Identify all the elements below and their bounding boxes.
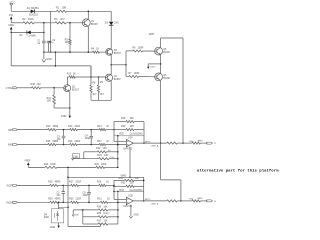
resistor R9 vertical x=98.4 xyxy=(97,77,99,85)
transistor Q6 PNP xyxy=(155,73,163,81)
svg-text:10K: 10K xyxy=(130,125,135,128)
svg-text:R36: R36 xyxy=(97,212,102,215)
svg-text:100p: 100p xyxy=(85,137,91,140)
svg-text:R18: R18 xyxy=(121,117,126,120)
svg-text:IN2N: IN2N xyxy=(6,201,12,205)
op-amp U1 xyxy=(126,139,133,147)
svg-text:1K: 1K xyxy=(106,140,109,143)
svg-text:GND: GND xyxy=(134,215,139,217)
svg-text:49R9: 49R9 xyxy=(55,197,61,200)
wire bias branch y=177.3 xyxy=(68,176,144,178)
wire Q3 emitter to node xyxy=(110,55,112,65)
wire op2 gnd pin xyxy=(130,205,132,216)
svg-text:49R9: 49R9 xyxy=(55,180,61,183)
svg-text:100K: 100K xyxy=(50,163,56,166)
svg-text:R12: R12 xyxy=(46,125,51,128)
wire to Q5 base y=50.9 xyxy=(126,50,133,52)
protection device D4 box xyxy=(51,209,63,223)
svg-text:U1B: U1B xyxy=(128,194,133,197)
svg-text:R29: R29 xyxy=(48,197,53,200)
svg-text:BC807: BC807 xyxy=(114,79,122,81)
wire y=108 xyxy=(54,107,70,109)
svg-text:VDDL: VDDL xyxy=(8,25,15,27)
ground GND3 xyxy=(58,223,60,226)
net flag 1V8 drop xyxy=(72,210,74,215)
wire stub x=55.4 xyxy=(54,52,56,66)
svg-text:R17: R17 xyxy=(97,140,102,143)
svg-text:4K7: 4K7 xyxy=(100,94,105,96)
wire diode row y=32.4 xyxy=(11,31,44,33)
svg-text:BC807: BC807 xyxy=(163,78,171,80)
svg-text:R35: R35 xyxy=(97,205,102,208)
svg-text:100K: 100K xyxy=(101,163,107,166)
svg-text:R15: R15 xyxy=(46,140,51,143)
svg-text:CTRL: CTRL xyxy=(6,86,13,90)
wire op2 plus vertical x=117.9 xyxy=(117,191,119,224)
node junction x=90.9 xyxy=(90,66,92,77)
svg-text:GND: GND xyxy=(46,58,52,61)
feedback resistor R39 op2 top row xyxy=(114,179,124,181)
svg-text:alternative part for this plat: alternative part for this platform xyxy=(197,168,279,173)
svg-text:R13: R13 xyxy=(68,125,73,128)
wire op2 lower bracket x=82.8 xyxy=(82,210,84,224)
op2 lower row A xyxy=(73,209,98,211)
svg-text:10K: 10K xyxy=(65,41,70,44)
wire VCC drop x=50.7 xyxy=(50,11,52,52)
svg-text:R24: R24 xyxy=(44,163,49,166)
diode D2 xyxy=(27,31,31,35)
svg-text:R23: R23 xyxy=(97,154,102,157)
wire bias y=167.4 xyxy=(28,166,45,168)
svg-text:R39: R39 xyxy=(119,178,124,180)
feedback DNI row op2 xyxy=(114,190,144,192)
wire Q1 collector xyxy=(87,11,89,19)
op-amp U1B xyxy=(126,197,133,205)
svg-text:R20: R20 xyxy=(120,134,125,136)
wire row y=185.4 xyxy=(17,184,50,186)
svg-text:100R: 100R xyxy=(138,46,144,49)
wire x=126 vertical xyxy=(125,51,127,77)
svg-text:R19: R19 xyxy=(121,125,126,128)
svg-text:LMV722: LMV722 xyxy=(123,205,133,208)
svg-text:CLASS(DNI): CLASS(DNI) xyxy=(130,133,143,136)
svg-text:1%: 1% xyxy=(108,150,111,152)
svg-text:1K: 1K xyxy=(106,180,109,183)
resistor R5 vertical x=70 xyxy=(69,23,71,39)
svg-text:10K: 10K xyxy=(130,117,135,120)
wire Q2 collector x=67.5 xyxy=(67,77,69,85)
wire base rail y=22.8 xyxy=(11,22,23,24)
power flag arrow VREF xyxy=(27,162,30,165)
svg-text:10R: 10R xyxy=(62,7,67,10)
wire op1 supply down x=130 xyxy=(129,147,131,177)
wire Q1 emitter xyxy=(87,26,89,52)
svg-text:R30: R30 xyxy=(69,197,74,200)
wire row y=129.6 xyxy=(17,129,47,131)
wire bias vertical x=68 xyxy=(67,167,69,226)
svg-text:5V6: 5V6 xyxy=(114,22,119,25)
wire Q5 emitter / Q6 collector xyxy=(160,55,162,73)
resistor R1 on VCC rail xyxy=(57,10,67,12)
wire Q4 emitter xyxy=(110,81,112,100)
svg-text:221R: 221R xyxy=(74,125,80,128)
svg-text:LINE_B: LINE_B xyxy=(151,203,159,205)
svg-text:VOUT: VOUT xyxy=(150,66,157,68)
svg-text:R38: R38 xyxy=(31,83,36,86)
wire Q4 base rail y=77 xyxy=(68,76,70,78)
wire plus branch x=117.8 xyxy=(117,136,119,168)
svg-text:(1%): (1%) xyxy=(103,212,108,215)
svg-text:INP: INP xyxy=(8,128,13,132)
ground GND2 arrow xyxy=(69,116,71,119)
wire Q2 emitter xyxy=(69,92,71,114)
wire node to x=126 xyxy=(111,64,126,66)
svg-text:R14: R14 xyxy=(97,125,102,128)
feedback resistor R18 xyxy=(114,121,126,123)
svg-text:1V8: 1V8 xyxy=(73,156,78,158)
svg-text:NET2: NET2 xyxy=(145,199,151,201)
transistor Q2 NPN xyxy=(64,85,71,92)
transistor Q1 PNP xyxy=(82,19,90,27)
svg-text:2K2: 2K2 xyxy=(37,83,42,86)
capacitor C5 xyxy=(62,185,64,191)
svg-text:R16: R16 xyxy=(68,140,73,143)
svg-text:LL4148: LL4148 xyxy=(28,35,37,38)
svg-text:GND: GND xyxy=(61,115,67,118)
op2 lower row C xyxy=(83,223,98,225)
wire row y=144.5 xyxy=(17,144,47,146)
wire Q6 emitter down xyxy=(160,81,162,143)
svg-text:BC807: BC807 xyxy=(91,24,99,26)
svg-text:10K: 10K xyxy=(130,182,135,185)
wire feedback left vertical x=114 xyxy=(113,122,115,142)
op1 lower row B xyxy=(73,158,99,160)
svg-text:10n: 10n xyxy=(56,194,61,197)
svg-text:BC817: BC817 xyxy=(114,53,122,55)
wire rail y=52.1 xyxy=(44,51,93,53)
wire op2 minus input xyxy=(114,198,126,200)
wire op2 feedback right vertical xyxy=(143,177,145,201)
resistor R11 vertical x=54.1 xyxy=(53,95,56,104)
svg-text:IN2P: IN2P xyxy=(7,184,13,188)
svg-text:10K: 10K xyxy=(47,100,52,103)
svg-text:R33: R33 xyxy=(120,190,125,192)
svg-text:R25: R25 xyxy=(95,163,100,166)
wire cap branch x=43.9 xyxy=(43,23,45,41)
svg-text:10n: 10n xyxy=(57,138,62,141)
svg-text:100K: 100K xyxy=(28,18,34,21)
transistor Q4 PNP xyxy=(105,74,112,81)
svg-text:4K7: 4K7 xyxy=(92,94,97,96)
wire Q5 collector xyxy=(160,38,162,47)
zener diode D3 xyxy=(110,11,112,21)
svg-text:R26: R26 xyxy=(48,180,53,183)
wire op1 output xyxy=(133,142,167,144)
svg-text:VREF: VREF xyxy=(24,160,31,162)
resistor R3 xyxy=(55,22,66,24)
svg-text:BC817: BC817 xyxy=(72,89,80,91)
svg-text:U1A: U1A xyxy=(128,137,133,140)
capacitor C3 between rows xyxy=(63,130,65,137)
wire bias rail y=65.9 xyxy=(11,65,91,67)
svg-text:INN: INN xyxy=(8,143,13,147)
resistor R8 vertical x=91 xyxy=(90,66,92,85)
svg-text:1K: 1K xyxy=(107,197,110,200)
svg-text:R10: R10 xyxy=(67,73,72,76)
wire op2 output xyxy=(133,200,167,202)
capacitor C6 xyxy=(88,185,90,192)
svg-text:CLASS(DNI): CLASS(DNI) xyxy=(130,189,143,192)
wire to Q6 base y=76.5 xyxy=(126,75,129,77)
wire left rail down x=11.2 xyxy=(10,32,12,66)
feedback resistor R19 row1 extension xyxy=(114,129,126,131)
svg-text:(1%): (1%) xyxy=(110,157,115,159)
svg-text:R27: R27 xyxy=(69,180,74,183)
wire VCC rail y=11.3 xyxy=(11,10,56,12)
feedback DNI row xyxy=(114,135,144,137)
svg-text:10K: 10K xyxy=(103,205,108,208)
resistor R4 on rail xyxy=(93,51,100,53)
op1 lower row A xyxy=(84,151,98,153)
svg-text:1K: 1K xyxy=(106,125,109,128)
svg-text:R31: R31 xyxy=(97,197,102,200)
resistor R38 on Q2 base xyxy=(32,87,41,89)
capacitor C4 between rows xyxy=(90,130,92,137)
svg-text:221R: 221R xyxy=(75,197,81,200)
svg-text:10K: 10K xyxy=(103,219,108,222)
svg-text:4K7: 4K7 xyxy=(60,18,65,21)
wire Q4 collector xyxy=(110,65,112,75)
svg-text:10K: 10K xyxy=(103,147,108,150)
capacitor C2 xyxy=(47,40,51,42)
feedback resistor R32 xyxy=(114,185,126,187)
svg-text:VBAT: VBAT xyxy=(149,33,155,36)
svg-text:221R: 221R xyxy=(75,180,81,183)
svg-text:10K: 10K xyxy=(104,154,109,157)
wire row y=202.3 xyxy=(17,201,50,203)
svg-text:100R: 100R xyxy=(134,72,140,75)
svg-text:SOD323: SOD323 xyxy=(29,14,39,17)
transistor Q5 NPN xyxy=(155,47,163,55)
svg-text:BC817: BC817 xyxy=(163,52,171,54)
wire jog to op2 output xyxy=(160,143,162,180)
net flag OUT2 xyxy=(207,200,213,202)
wire x=183 vertical xyxy=(182,38,184,143)
svg-text:1K: 1K xyxy=(96,48,99,51)
row4 stub to protection box xyxy=(58,202,60,209)
svg-text:GND: GND xyxy=(50,226,56,229)
svg-text:BAT54: BAT54 xyxy=(31,7,39,10)
ground GND1 xyxy=(43,52,45,59)
power flag boxed 1V8 xyxy=(73,154,80,158)
diode D1 BAT54 xyxy=(31,10,35,14)
svg-text:R37: R37 xyxy=(97,219,102,222)
svg-text:49R9: 49R9 xyxy=(52,125,58,128)
svg-text:10K: 10K xyxy=(135,178,140,180)
wire op1 minus input xyxy=(114,140,126,142)
svg-text:ESD: ESD xyxy=(44,216,49,219)
svg-text:R22: R22 xyxy=(96,147,101,150)
svg-text:R28: R28 xyxy=(97,180,102,183)
svg-text:221R: 221R xyxy=(74,140,80,143)
wire feedback right vertical x=144 xyxy=(143,122,145,144)
op2 lower row B xyxy=(83,216,98,218)
resistor R2 xyxy=(23,22,34,24)
net flag mid node xyxy=(148,63,160,65)
transistor Q3 NPN xyxy=(106,49,113,56)
net flag OUT1 xyxy=(207,142,213,144)
svg-text:LINE_A: LINE_A xyxy=(151,145,159,148)
capacitor C1 xyxy=(42,40,46,42)
svg-text:NET1: NET1 xyxy=(145,141,151,143)
wire lower bracket x=83.8 xyxy=(83,152,85,159)
svg-text:1K: 1K xyxy=(73,73,76,76)
wire y=38 top right xyxy=(161,37,183,39)
wire op2 box left vertical xyxy=(113,180,115,199)
wire rail y=100.3 xyxy=(91,99,111,101)
svg-text:R32: R32 xyxy=(121,182,126,185)
svg-text:100p: 100p xyxy=(82,194,88,197)
